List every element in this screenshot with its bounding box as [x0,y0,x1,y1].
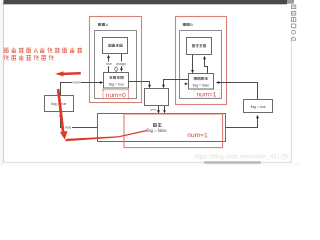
left gutter strip [0,0,3,166]
thread B label 线程B [183,22,193,27]
svg-text:write: write [150,107,157,111]
red note line1: 需要线程A知道主内存中 [4,47,82,54]
main memory box [98,114,226,142]
right panel icon 5 [292,30,296,34]
red note line2: 的值发生了变化 [4,55,54,61]
right panel icon 2 [291,11,295,15]
right flag copy box [244,100,273,113]
svg-text:load: load [74,81,80,85]
main memory red selection rect [124,114,223,148]
left canvas border [2,2,4,162]
svg-text:flag = false: flag = false [193,83,210,87]
middle save box [145,89,169,106]
working memory A label 工作内存 [110,76,124,79]
num=1 (thread B) selection rect [194,90,220,98]
use arrow A (up into engine) [107,55,110,73]
red thin tail line from num=1 to arrow [66,130,147,141]
red thick diagonal arrow through left flag box [57,89,68,140]
svg-text:flag = false: flag = false [146,128,167,133]
execution engine A label 执行引擎 [109,44,123,47]
canvas background [0,0,300,166]
svg-text:read: read [65,125,72,129]
wire A working memory to middle box [129,82,151,89]
wire right flag box to working memory B [216,81,258,99]
thread A red box [90,17,142,103]
bottom canvas border [3,161,292,163]
thread A label 线程A [98,22,108,27]
bottom scrollbar thumb [204,161,261,164]
left flag copy box [45,96,74,112]
top dark toolbar bar [3,0,287,4]
execution engine B label 执行引擎 [192,44,206,47]
thread B gray container box [180,31,222,99]
right divider line [290,36,292,162]
use arrow B with jog (up into engine B) [203,56,207,74]
read label on wire [64,125,72,130]
svg-text:B: B [190,22,193,27]
load label on wire [73,80,81,85]
wire B working memory to middle box [162,80,188,89]
assign arrow B (down into working memory B) [191,55,194,74]
svg-text:num=1: num=1 [187,132,208,139]
write arrow middle box to main memory [157,106,160,114]
right panel icon 3 [291,18,295,22]
svg-text:num=0: num=0 [106,92,126,99]
svg-text:flag = true: flag = true [251,105,266,109]
wire main memory to right flag box [226,115,259,128]
thread B red box [176,17,227,105]
svg-text:A: A [106,22,109,27]
execution engine box B [187,38,212,55]
wire main memory to left flag box (read) [59,113,97,127]
execution engine box A [103,38,128,54]
svg-text:A: A [34,48,39,55]
arrow stub into working memory B left edge [185,83,188,86]
svg-text:_8: _8 [281,154,289,160]
working memory B label 工作内存 [194,77,208,80]
svg-text:num=1: num=1 [197,91,217,98]
right panel icon 4 [291,24,295,28]
svg-text:assign: assign [116,62,126,66]
wire left flag box to working memory A (load) [61,81,104,95]
working memory box B [189,74,214,90]
working memory box A [104,73,129,89]
thread A gray container box [95,31,137,99]
assign label [116,62,126,67]
right panel icon 1 [291,5,295,9]
num=0 selection rect [103,90,129,99]
top bar right gray block [287,0,294,4]
red left-pointing thick arrow [55,71,81,76]
svg-text:flag = true: flag = true [109,82,124,86]
right panel icon 6 [292,37,296,40]
main memory label 主存 [153,123,161,127]
assign arrow A (down into working memory) [120,54,123,72]
svg-text:use: use [106,62,112,66]
second connector middle box to main memory [163,106,166,114]
bottom strip below border [3,163,300,166]
small diamond node A [114,67,118,72]
num=0 selection handles [102,89,129,99]
svg-text:https://blog.csdn.net/weixin_4: https://blog.csdn.net/weixin_44175 [195,154,288,160]
use label [106,62,113,67]
